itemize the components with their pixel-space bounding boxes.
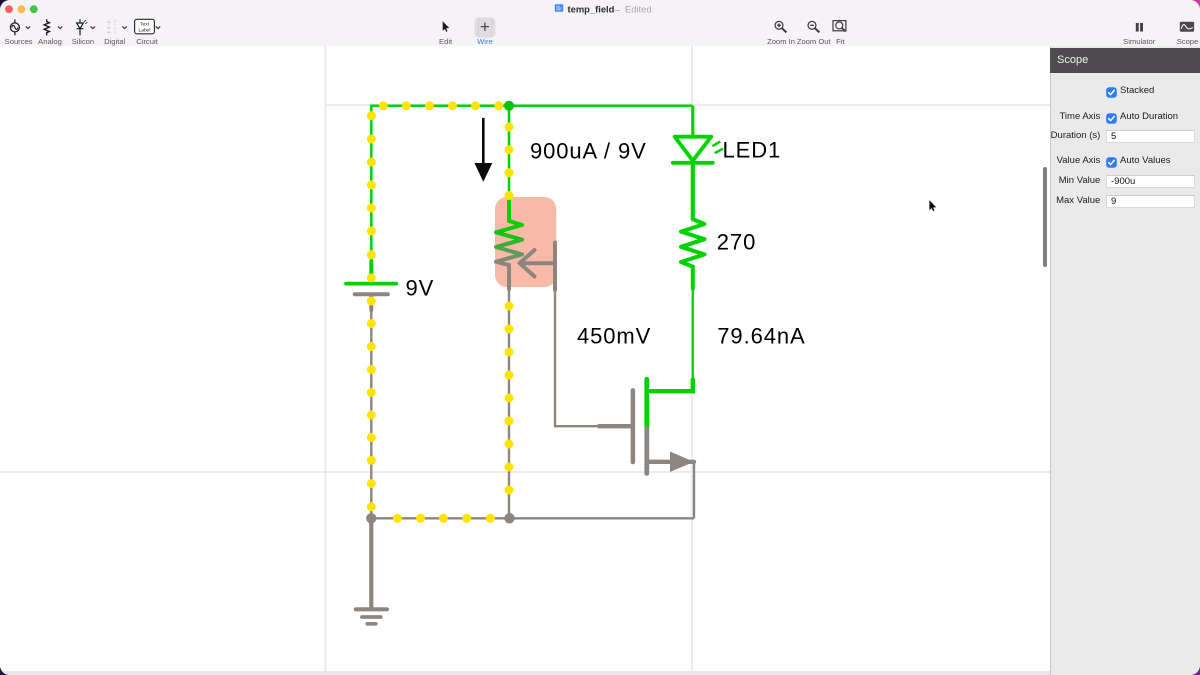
toolbar Silicon icon bbox=[77, 19, 88, 35]
panel controls bbox=[1030, 111, 1100, 122]
svg-text:79.64nA: 79.64nA bbox=[717, 324, 805, 349]
svg-text:Edited: Edited bbox=[625, 3, 652, 14]
svg-text:450mV: 450mV bbox=[577, 324, 651, 349]
svg-text:Silicon: Silicon bbox=[72, 37, 94, 46]
resistor R1 bottom lead bbox=[691, 267, 695, 289]
potentiometer R2 wiper arrow bbox=[520, 243, 556, 291]
svg-text:Zoom In: Zoom In bbox=[767, 37, 795, 46]
wire junction down to pot top bbox=[508, 106, 511, 207]
battery V1 negative plate bbox=[355, 294, 388, 310]
svg-text:Edit: Edit bbox=[439, 37, 453, 46]
toolbar Wire button selected bbox=[475, 17, 496, 37]
svg-text:270: 270 bbox=[717, 230, 756, 255]
toolbar Circuit icon Text Label bbox=[135, 19, 155, 34]
transistor Q1 channel source side bbox=[644, 429, 649, 474]
node top junction bbox=[504, 101, 514, 111]
wire top right down to LED bbox=[691, 106, 694, 137]
resistor R1 270 zigzag bbox=[681, 219, 705, 267]
svg-text:900uA / 9V: 900uA / 9V bbox=[530, 139, 647, 164]
traffic light minimize bbox=[18, 5, 26, 13]
svg-text:Text: Text bbox=[140, 21, 150, 27]
potentiometer R2 zigzag bbox=[496, 221, 522, 265]
traffic light close bbox=[5, 5, 13, 13]
svg-text:Wire: Wire bbox=[477, 37, 493, 46]
node bottom middle junction bbox=[504, 513, 514, 523]
toolbar Edit cursor icon bbox=[443, 21, 450, 32]
svg-text:Sources: Sources bbox=[5, 37, 33, 46]
transistor Q1 gate plate bbox=[631, 390, 636, 462]
wire pot wiper down to gate bbox=[555, 288, 600, 426]
chevron Circuit bbox=[156, 26, 160, 28]
transistor Q1 drain lead bbox=[647, 380, 693, 392]
annotation arrow current direction bbox=[474, 118, 492, 182]
potentiometer R2 bottom lead bbox=[507, 265, 511, 289]
wire MOSFET source down to bottom wire bbox=[693, 461, 695, 518]
transistor Q1 source lead bbox=[647, 460, 694, 464]
transistor Q1 source arrow bbox=[671, 452, 693, 471]
potentiometer R2 selection highlight bbox=[495, 197, 556, 287]
lead LED cathode to R1 bbox=[691, 163, 695, 219]
wire R1 bottom to MOSFET drain bbox=[692, 267, 694, 380]
svg-text:Circuit: Circuit bbox=[136, 37, 158, 46]
LED LED1 light rays bbox=[713, 142, 722, 153]
svg-text:Zoom Out: Zoom Out bbox=[797, 37, 832, 46]
chevron Digital bbox=[122, 26, 126, 28]
toolbar Scope icon bbox=[1180, 22, 1194, 32]
chevron Silicon bbox=[91, 26, 95, 28]
node bottom left junction bbox=[366, 513, 376, 523]
toolbar Sources icon bbox=[10, 19, 19, 35]
transistor Q1 gate lead bbox=[599, 424, 631, 428]
traffic light zoom bbox=[30, 5, 38, 13]
wire top horizontal bbox=[370, 105, 693, 108]
svg-text:Fit: Fit bbox=[836, 37, 845, 46]
toolbar Analog icon bbox=[44, 19, 49, 35]
current flow dots bbox=[367, 101, 514, 523]
wire pot bottom to bottom wire bbox=[508, 287, 510, 518]
svg-text:–: – bbox=[615, 3, 621, 14]
LED LED1 bbox=[673, 137, 713, 163]
toolbar Zoom In icon bbox=[775, 21, 786, 32]
wire battery positive up left side bbox=[370, 106, 373, 282]
svg-text:temp_field: temp_field bbox=[568, 3, 615, 14]
document icon bbox=[555, 4, 563, 12]
wire battery negative to ground node bbox=[370, 296, 372, 518]
svg-text:Digital: Digital bbox=[104, 37, 125, 46]
toolbar Simulator pause icon bbox=[1136, 23, 1143, 32]
potentiometer R2 top lead bbox=[507, 198, 511, 221]
svg-text:Label: Label bbox=[139, 27, 151, 33]
chevron Sources bbox=[26, 26, 30, 28]
svg-text:LED1: LED1 bbox=[723, 138, 782, 163]
wire bottom horizontal node to source bbox=[371, 517, 694, 519]
toolbar Digital icon bbox=[107, 20, 115, 35]
svg-text:Scope: Scope bbox=[1177, 37, 1199, 46]
svg-text:Simulator: Simulator bbox=[1123, 37, 1156, 46]
toolbar Fit icon bbox=[833, 21, 846, 32]
toolbar Zoom Out icon bbox=[808, 21, 819, 32]
transistor Q1 channel drain side bbox=[644, 379, 649, 428]
svg-text:9V: 9V bbox=[406, 276, 435, 301]
ground symbol bbox=[356, 518, 387, 624]
svg-text:Analog: Analog bbox=[38, 37, 62, 46]
mouse cursor bbox=[929, 200, 936, 211]
chevron Analog bbox=[58, 26, 62, 28]
battery V1 positive plate bbox=[346, 261, 396, 284]
